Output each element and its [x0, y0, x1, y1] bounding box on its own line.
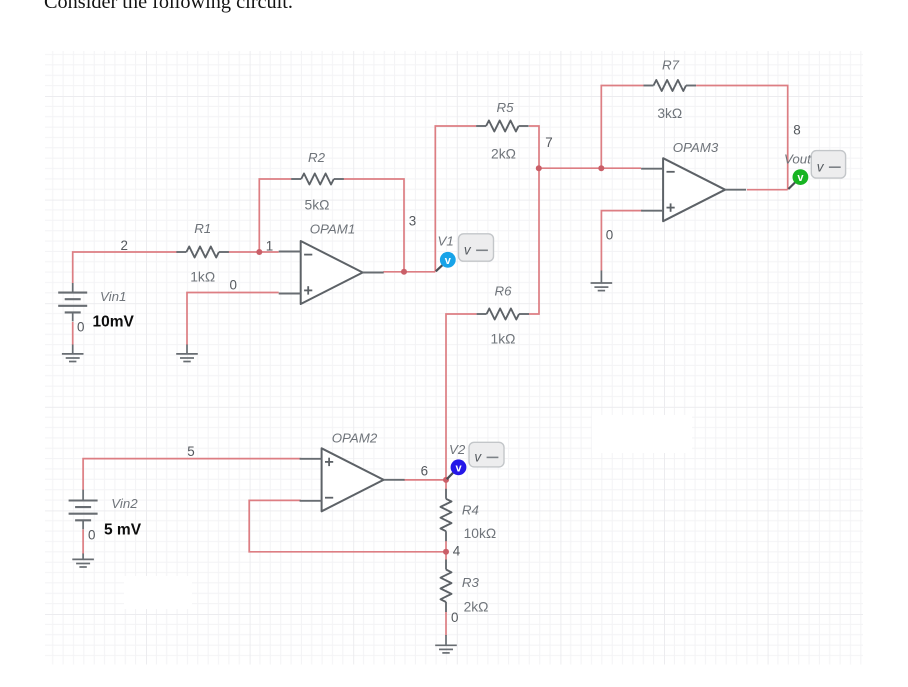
wire node 0: Vin2 bottom to ground	[82, 530, 84, 555]
wire node 7: junction to OPAM3 inverting input	[539, 167, 641, 169]
svg-text:1kΩ: 1kΩ	[491, 332, 516, 347]
resistor R4 10k (vertical)	[441, 489, 452, 541]
resistor R1 1k (horizontal)	[176, 247, 229, 258]
label R4	[462, 503, 479, 518]
value 1k for R6	[491, 332, 516, 347]
node label 1	[266, 239, 273, 254]
lead: Vin2 bottom to ground	[82, 554, 84, 560]
wire node 6: OPAM2 output to junction	[404, 479, 446, 481]
wire node 7: junction down to R6 right	[529, 168, 539, 314]
wire node 0: R3 bottom to ground	[445, 612, 447, 636]
resistor R7 3k (horizontal feedback)	[644, 80, 697, 91]
label OPAM3	[673, 140, 719, 155]
probe V2 (deep blue)	[447, 459, 467, 479]
node label 0 at Vin2	[88, 528, 95, 543]
wire node 0: OPAM1 non-inverting input to ground	[187, 293, 279, 346]
svg-text:3: 3	[409, 214, 416, 229]
ground for OPAM1 non-inverting input	[176, 354, 198, 362]
wire node 7: R7 left vertical	[601, 86, 643, 169]
probe V2 value box	[469, 442, 504, 467]
voltage source Vin1 battery	[58, 293, 87, 322]
junction node 6	[443, 477, 449, 483]
svg-text:5kΩ: 5kΩ	[305, 198, 330, 213]
wire node 7: R5 right down to junction	[529, 126, 539, 168]
svg-text:R3: R3	[462, 575, 480, 590]
svg-text:5: 5	[187, 444, 194, 459]
node label 2	[121, 238, 128, 253]
svg-text:0: 0	[451, 610, 458, 625]
svg-text:v: v	[797, 172, 804, 184]
wire node 8: OPAM3 output	[747, 189, 788, 191]
label OPAM2	[332, 431, 378, 446]
svg-text:4: 4	[453, 544, 461, 559]
svg-text:Vin1: Vin1	[100, 289, 126, 304]
svg-text:0: 0	[88, 528, 95, 543]
node label 8	[793, 123, 800, 138]
svg-text:R4: R4	[462, 503, 479, 518]
svg-text:R6: R6	[495, 284, 513, 299]
op-amp OPAM1	[279, 241, 384, 304]
lead: Vin1 top plate	[72, 283, 74, 293]
resistor R3 2k (vertical)	[441, 560, 452, 613]
probe V1 value box	[459, 234, 494, 261]
op-amp OPAM3	[641, 158, 746, 221]
svg-text:OPAM1: OPAM1	[310, 222, 356, 237]
svg-text:2: 2	[121, 238, 128, 253]
label R1	[194, 221, 211, 236]
wire node 6: R6 left down to OPAM2 output junction	[446, 314, 477, 480]
wire node 0: Vin1 bottom to ground	[72, 322, 74, 345]
wire node 4: R4 bottom to junction	[445, 540, 447, 552]
svg-text:v: v	[445, 255, 452, 267]
node label 0 at Vin1	[77, 320, 84, 335]
label Vout	[784, 151, 812, 166]
junction node 7 (R5/R6)	[536, 165, 542, 171]
node label 3	[409, 214, 416, 229]
wire node 6: junction to R4 top	[445, 480, 447, 490]
label Vin1	[100, 289, 126, 304]
op-amp OPAM2 (non-inverting on top)	[300, 448, 405, 511]
label OPAM1	[310, 222, 356, 237]
value 1k for R1	[190, 270, 215, 285]
junction node 7 (R7 tap)	[598, 165, 604, 171]
junction node 4	[443, 549, 449, 555]
probe Vout (green)	[788, 169, 808, 189]
wire node 8: R7 right down to OPAM3 output	[696, 86, 788, 190]
svg-text:R7: R7	[662, 58, 680, 73]
svg-text:OPAM2: OPAM2	[332, 431, 378, 446]
node label 0 at R3	[451, 610, 458, 625]
wire node 3: V1 corner up to R5 left	[435, 126, 476, 272]
node label 0 at OPAM1	[230, 278, 237, 293]
label R2	[308, 150, 326, 165]
svg-text:8: 8	[793, 123, 800, 138]
wire node 2: Vin1 top to R1	[73, 252, 178, 283]
node label 4	[453, 544, 461, 559]
value 5 mV for Vin2	[104, 522, 142, 539]
node label 5	[187, 444, 194, 459]
white patch over grid (erased area right-middle)	[592, 415, 692, 453]
svg-text:7: 7	[545, 135, 552, 150]
svg-text:2kΩ: 2kΩ	[464, 599, 489, 614]
value 2k for R3	[464, 599, 489, 614]
value 2k for R5	[491, 147, 516, 162]
wire node 3: R2 right down to OPAM1 output	[344, 179, 405, 272]
svg-text:R1: R1	[194, 221, 211, 236]
value 5k for R2	[305, 198, 330, 213]
wire node 4: OPAM2 feedback to inverting input	[249, 500, 446, 551]
lead: OPAM3 plus net to ground	[600, 271, 602, 284]
svg-text:5 mV: 5 mV	[104, 522, 142, 539]
wire node 0: OPAM3 non-inverting input to ground	[601, 211, 642, 271]
svg-text:R2: R2	[308, 150, 326, 165]
label V2	[449, 442, 466, 457]
ground under Vin2	[72, 559, 94, 567]
lead: Vin2 top plate	[82, 490, 84, 501]
svg-text:OPAM3: OPAM3	[673, 140, 719, 155]
ground under Vin1	[62, 354, 84, 362]
label Vin2	[111, 496, 138, 511]
svg-text:0: 0	[606, 227, 613, 242]
svg-text:V1: V1	[438, 233, 454, 248]
label R5	[497, 100, 515, 115]
value 10mV for Vin1	[93, 314, 135, 331]
label R6	[495, 284, 513, 299]
node label 7	[545, 135, 552, 150]
svg-text:10kΩ: 10kΩ	[464, 526, 497, 541]
ground for OPAM3 non-inverting input	[591, 283, 613, 291]
svg-text:0: 0	[77, 320, 84, 335]
resistor R2 5k (horizontal feedback)	[291, 174, 344, 185]
wire node 3: OPAM1 output to V1 corner	[383, 271, 435, 273]
svg-text:Vout: Vout	[784, 151, 812, 166]
node label 0 at OPAM3	[606, 227, 613, 242]
svg-text:Vin2: Vin2	[111, 496, 138, 511]
label V1	[438, 233, 454, 248]
svg-text:3kΩ: 3kΩ	[657, 106, 682, 121]
svg-text:2kΩ: 2kΩ	[491, 147, 516, 162]
lead: Vin1 bottom to ground	[72, 345, 74, 355]
svg-text:V2: V2	[449, 442, 466, 457]
probe V1 (blue)	[436, 252, 456, 271]
value 10k for R4	[464, 526, 497, 541]
wire node 5: Vin2 top to OPAM2 non-inverting input	[83, 459, 301, 490]
resistor R6 1k (horizontal)	[477, 309, 529, 320]
lead: node-0 wire to ground near OPAM1	[186, 345, 188, 355]
node label 6	[421, 464, 428, 479]
problem statement text (top, partially cropped)	[44, 0, 293, 14]
svg-text:v: v	[455, 462, 462, 474]
white patch over grid (erased area below Vin2)	[124, 576, 192, 609]
label R3	[462, 575, 480, 590]
label R7	[662, 58, 680, 73]
svg-text:0: 0	[230, 278, 237, 293]
probe Vout value box	[811, 151, 845, 179]
ground under R3	[435, 645, 457, 653]
lead: R3 bottom to ground	[445, 635, 447, 646]
svg-text:6: 6	[421, 464, 428, 479]
wire node 4: junction to R3 top	[445, 552, 447, 560]
value 3k for R7	[657, 106, 682, 121]
svg-text:1: 1	[266, 239, 273, 254]
svg-text:R5: R5	[497, 100, 515, 115]
resistor R5 2k (horizontal)	[476, 121, 528, 132]
wire node 1: R1 right to OPAM1 inverting input	[228, 251, 279, 253]
svg-text:1kΩ: 1kΩ	[190, 270, 215, 285]
junction node 3	[401, 269, 407, 275]
wire node 1: feedback branch up to R2 left	[259, 179, 291, 252]
svg-text:10mV: 10mV	[93, 314, 135, 331]
junction node 1	[256, 249, 262, 255]
voltage source Vin2 battery	[69, 501, 98, 530]
